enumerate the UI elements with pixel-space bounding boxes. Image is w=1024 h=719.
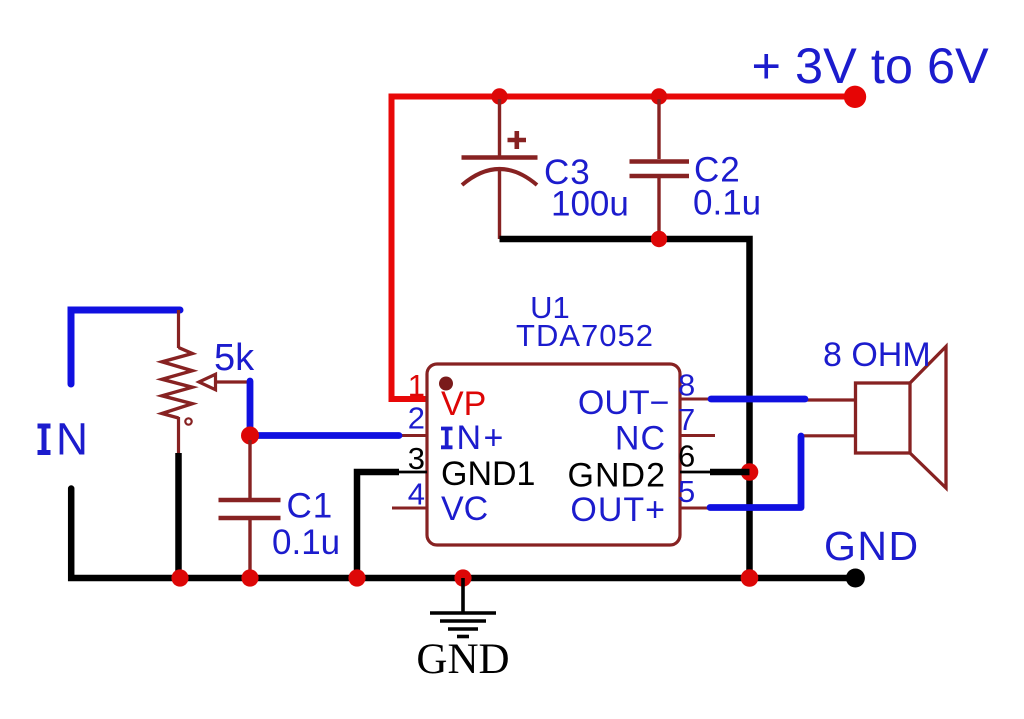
pin 1 marker dot <box>439 377 453 391</box>
pin label IN+ <box>441 429 453 448</box>
svg-text:5k: 5k <box>214 337 255 379</box>
svg-text:6: 6 <box>678 439 695 474</box>
node supply terminal dot <box>844 86 866 108</box>
svg-text:3: 3 <box>408 441 425 476</box>
svg-text:8 OHM: 8 OHM <box>823 336 931 374</box>
wire GND2 to vertical (black) <box>710 469 750 476</box>
svg-text:N: N <box>56 414 88 465</box>
capacitor C2 (0.1u) <box>630 99 690 237</box>
svg-text:4: 4 <box>408 477 425 512</box>
svg-text:0.1u: 0.1u <box>693 184 761 223</box>
pin stub 5 <box>680 507 713 510</box>
wire GND1 to ground bus (black) <box>357 472 399 578</box>
svg-text:8: 8 <box>678 368 695 403</box>
svg-text:GND: GND <box>824 523 920 569</box>
svg-text:TDA7052: TDA7052 <box>516 318 654 353</box>
svg-text:N+: N+ <box>457 419 506 457</box>
svg-text:C1: C1 <box>287 487 334 526</box>
wire wiper to IN+ (blue) <box>250 381 399 436</box>
wire OUT+ to speaker (blue, up and over) <box>801 434 856 437</box>
svg-text:100u: 100u <box>551 185 629 224</box>
pin stub 4 <box>392 507 427 510</box>
node junction wiper/C1 <box>241 427 259 445</box>
wire VP supply (red rail) <box>392 97 856 400</box>
wire caps to GND2 (black top) <box>500 239 750 578</box>
svg-text:1: 1 <box>408 368 425 403</box>
capacitor C3 (electrolytic 100u) <box>462 99 538 239</box>
pin stub 3 <box>399 471 427 474</box>
pin stub 6 <box>680 471 713 474</box>
svg-text:GND2: GND2 <box>568 457 666 495</box>
node junction C2/black wire <box>651 231 667 247</box>
wire OUT- to speaker (blue over maroon) <box>804 398 856 401</box>
node junction GND2/black vertical <box>741 463 759 481</box>
svg-text:7: 7 <box>678 402 695 437</box>
svg-text:NC: NC <box>615 420 666 458</box>
capacitor C1 (0.1u) <box>219 440 281 578</box>
op-amp U1 TDA7052 body <box>427 364 680 545</box>
svg-text:+ 3V to 6V: + 3V to 6V <box>752 37 990 94</box>
svg-text:OUT−: OUT− <box>578 384 670 422</box>
pin stub 8 <box>680 398 713 401</box>
wire IN ground side (black L into bottom bus) <box>71 489 853 579</box>
speaker LS1 <box>856 347 947 489</box>
svg-text:GND: GND <box>416 636 509 683</box>
svg-text:OUT+: OUT+ <box>570 491 666 529</box>
node junction ground symbol/bus <box>454 569 471 586</box>
wire pot bottom to ground bus <box>175 453 182 578</box>
svg-text:VC: VC <box>441 490 488 528</box>
svg-text:5: 5 <box>678 474 695 509</box>
pin stub 2 <box>394 434 427 437</box>
node junction pot/bus <box>171 569 188 586</box>
node junction C2/supply <box>651 88 667 104</box>
node GND terminal dot (black) <box>846 569 865 588</box>
svg-text:2: 2 <box>408 401 425 436</box>
node junction black vertical/bus <box>741 569 759 587</box>
label IN <box>38 426 51 453</box>
ground symbol <box>430 578 496 637</box>
svg-text:GND1: GND1 <box>441 455 535 493</box>
potentiometer wiper arrow <box>216 380 248 383</box>
node junction C1/bus <box>241 569 258 586</box>
svg-text:0.1u: 0.1u <box>272 523 340 562</box>
potentiometer R1 5k <box>162 310 192 453</box>
node junction C3/supply <box>491 88 507 104</box>
wire IN input (blue L, open terminal) <box>71 310 180 384</box>
svg-text:VP: VP <box>441 385 486 423</box>
pin stub 7 <box>680 434 715 437</box>
node junction GND1 wire/bus <box>348 569 365 586</box>
